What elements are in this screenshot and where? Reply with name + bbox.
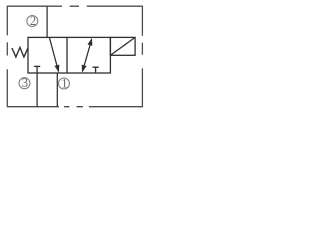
- double flow arrow, right box: [83, 43, 90, 69]
- cartridge envelope, bottom edge: [7, 106, 142, 108]
- solenoid actuator box: [110, 37, 135, 55]
- spring (return spring, left): [12, 47, 28, 57]
- port label circle 1: [58, 78, 69, 89]
- svg-text:2: 2: [30, 14, 36, 28]
- svg-text:1: 1: [61, 77, 67, 91]
- cartridge envelope, left edge: [6, 6, 8, 108]
- solenoid diagonal: [110, 37, 135, 55]
- port label circle 2: [27, 16, 38, 27]
- port 2 line: [46, 6, 48, 37]
- cartridge envelope, right edge: [141, 6, 143, 108]
- cartridge envelope (dashed boundary), top edge: [7, 5, 142, 7]
- blocked port T bar (left box): [34, 65, 40, 67]
- flow arrow, left box (port2 to port1), head at bottom: [49, 38, 57, 68]
- port label circle 3: [19, 78, 30, 89]
- divider between position boxes: [66, 37, 68, 73]
- port 1 line: [56, 73, 58, 107]
- blocked port T (right box): [93, 67, 99, 73]
- valve body: position boxes outline: [28, 37, 110, 73]
- port 3 line with blocked-port stem: [36, 66, 38, 106]
- svg-text:3: 3: [22, 76, 28, 90]
